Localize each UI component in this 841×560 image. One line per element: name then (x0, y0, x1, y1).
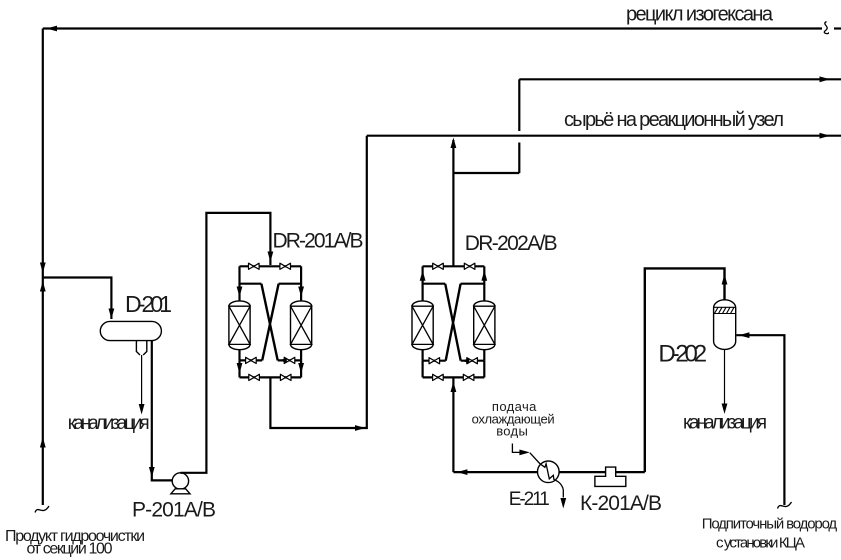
wire: E-211 process line (453, 471, 605, 473)
svg-text:D-201: D-201 (125, 291, 172, 317)
arrow: into product header (451, 138, 457, 149)
valve: DR-201 top right (280, 263, 291, 269)
arrow: drain down (D-202) (722, 404, 728, 415)
wire: left main vertical (recycle down + feed up) (42, 29, 44, 506)
vessel D-202 (714, 300, 736, 350)
vessel DR-202B (474, 301, 495, 350)
wire: DR-201 left leg down (238, 266, 240, 302)
wire: DR-202 top manifold (423, 265, 485, 267)
arrow: drain down (139, 404, 145, 415)
wire: DR-201 left vessel bottom stub (238, 350, 240, 361)
wire: DR-202 outlet riser (452, 140, 454, 266)
arrow: D-202 overhead up (722, 274, 728, 285)
arrow: flow left toward DR-202 riser (457, 469, 468, 475)
wire: DR-201 crossover stubs (240, 283, 302, 285)
wire: DR-201 lower bottom manifold (240, 376, 302, 378)
arrow: left leg down (237, 363, 243, 374)
wire: DR-201 crossover diagonals (261, 284, 278, 361)
arrow: into right dryer (298, 287, 304, 298)
svg-text:канализация: канализация (683, 413, 767, 434)
wire: DR-202 right leg between manifolds (483, 361, 485, 378)
wire: DR-202 crossover stubs (423, 283, 485, 285)
arrow: cooling water in (519, 450, 530, 456)
wire: branch to upper header (453, 172, 519, 174)
arrow: toward crossover junction (279, 358, 287, 363)
wire: DR-201 outlet down right and up to product header (270, 136, 366, 428)
vessel D-201 drum (100, 321, 161, 340)
svg-text:от секции 100: от секции 100 (27, 541, 113, 558)
arrow: outlet to the right (355, 425, 366, 431)
arrow: feed up into DR-202 (451, 382, 457, 393)
wire: DR-201 right leg down (300, 266, 302, 302)
arrow: down to pump (149, 467, 155, 478)
valve: DR-201 bottom-left lower (249, 374, 260, 380)
arrow: product header right (820, 133, 831, 139)
svg-text:рецикл изогексана: рецикл изогексана (626, 3, 774, 25)
wire: DR-202 upper bottom manifold left (423, 360, 446, 362)
wire: DR-201 top manifold (240, 265, 302, 267)
wire: D-201 bottom outlet to pump (152, 341, 173, 481)
arrow: into D-201 top (109, 309, 115, 320)
valve: DR-201 bottom-right upper (284, 357, 295, 363)
wire: DR-202 left leg between manifolds (422, 361, 424, 378)
valve: DR-201 bottom-left upper (246, 357, 257, 363)
wire: DR-202 right vessel bottom stub (483, 350, 485, 361)
valve: DR-201 bottom-right lower (280, 374, 291, 380)
break symbol: recycle line right end (824, 22, 828, 34)
valve: DR-202 bottom-right upper (467, 358, 478, 364)
svg-text:сырьё на реакционный узел: сырьё на реакционный узел (564, 109, 784, 131)
wire: DR-201 right leg between manifolds (300, 360, 302, 377)
svg-text:Р-201А/В: Р-201А/В (132, 499, 216, 522)
break symbol: feed line bottom end (35, 506, 49, 513)
svg-text:с установки КЦА: с установки КЦА (716, 535, 805, 552)
wire: cooling water inlet mark (512, 444, 521, 453)
arrow: upper header right (820, 76, 831, 82)
wire: E-211 to K-201 line (616, 471, 645, 473)
wire: D-202 overhead loop (645, 268, 725, 472)
svg-text:DR-201A/B: DR-201A/B (273, 230, 364, 253)
wire: DR-202 upper bottom manifold right (461, 360, 485, 362)
wire: DR-202 left leg down (422, 266, 424, 302)
vessel D-201 boot (136, 341, 146, 355)
valve: DR-202 bottom-left upper (429, 358, 440, 364)
wire: product header сырьё (367, 135, 841, 137)
vessel DR-202A (412, 301, 433, 350)
arrow: recycle down into junction (40, 263, 46, 274)
svg-text:D-202: D-202 (658, 341, 707, 368)
svg-text:К-201А/В: К-201А/В (580, 492, 662, 515)
wire: pump discharge up and over to DR-201 (180, 213, 270, 473)
cooler E-211 circle (538, 461, 560, 483)
valve: DR-202 bottom-left lower (433, 374, 444, 380)
svg-text:DR-202A/B: DR-202A/B (465, 232, 558, 255)
arrow: feed up lower (40, 437, 46, 448)
arrow: toward crossover junction (DR-202) (462, 358, 470, 363)
arrow: cooling water out down (560, 498, 566, 509)
vessel DR-201B (291, 301, 312, 350)
valve: DR-202 top right (464, 263, 475, 269)
arrow: into D-202 side (739, 332, 750, 338)
wire: makeup hydrogen into D-202 (737, 335, 785, 505)
wire: upper header vertical above crossing (518, 79, 520, 131)
wire: DR-202 right leg down (483, 266, 485, 302)
pump P-201A/B circle (172, 473, 188, 489)
cooler E-211 coil zigzag (530, 453, 563, 498)
wire: D-202 bottom drain (724, 349, 726, 403)
svg-text:канализация: канализация (68, 413, 150, 434)
arrow: into left dryer (237, 287, 243, 298)
vessel D-202 demister band (714, 307, 736, 313)
arrow: recycle flow left (47, 26, 58, 32)
wire: D-201 drain (141, 355, 143, 404)
wire: DR-201 right vessel bottom stub (300, 350, 302, 361)
svg-text:Подпиточный водород: Подпиточный водород (702, 515, 838, 532)
wire: DR-202 feed riser from E-211 line (452, 377, 454, 472)
wire: DR-202 left vessel bottom stub (422, 350, 424, 361)
wire: DR-202 lower bottom manifold (423, 376, 485, 378)
wire: upper header horizontal (519, 78, 841, 80)
break symbol: hydrogen line bottom (778, 502, 792, 509)
wire: recycle stub to edge (834, 27, 841, 29)
svg-text:Е-211: Е-211 (509, 489, 550, 510)
arrow: right leg up (481, 270, 487, 281)
wire: DR-202 crossover diagonals (445, 284, 461, 361)
valve: DR-202 bottom-right lower (463, 374, 474, 380)
wire: DR-201 upper bottom manifold left (240, 359, 263, 361)
wire: DR-201 left leg between manifolds (238, 360, 240, 377)
valve: DR-201 top left (249, 263, 260, 269)
arrow: left leg up (420, 270, 426, 281)
wire: DR-201 upper bottom manifold right (278, 359, 301, 361)
wire: junction branch to D-201 (43, 278, 112, 320)
arrow: down into DR-201 manifold (268, 252, 274, 263)
svg-text:воды: воды (496, 424, 528, 439)
vessel DR-201A (229, 301, 250, 350)
wire: upper header vertical below crossing (518, 143, 520, 174)
arrow: right leg down (298, 363, 304, 374)
wire: recycle header horizontal (43, 27, 822, 29)
valve: DR-202 top left (433, 263, 444, 269)
compressor K-201A/B symbol (595, 467, 626, 486)
pump P-201A/B base (171, 489, 190, 494)
arrow: feed up into junction (40, 281, 46, 292)
